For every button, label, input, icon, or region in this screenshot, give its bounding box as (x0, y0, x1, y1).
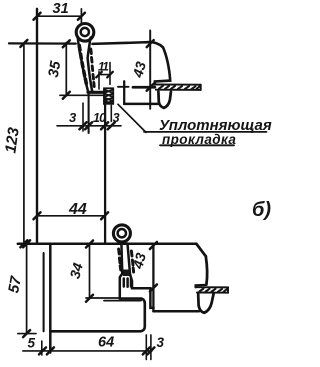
ticks of bottom dims (39, 347, 154, 354)
ticks of 3-10-3 (80, 122, 115, 129)
tick left of 44 (34, 212, 41, 219)
tick top of 43 (147, 40, 154, 47)
slot top edge (bottom detail) (196, 285, 207, 287)
dimension line 123 (23, 43, 25, 243)
ext line x150.9 (150, 335, 152, 360)
extension line y95 (bottom of dim 35) (60, 94, 105, 96)
svg-text:3: 3 (113, 111, 120, 125)
step profile left (bottom detail) (120, 274, 122, 298)
svg-text:прокладка: прокладка (162, 132, 236, 147)
gasket bar (top detail) (155, 85, 200, 90)
ext line x111 (110, 105, 112, 121)
ext line left of 11 (98, 72, 100, 89)
tick top of 34 (86, 241, 93, 248)
gasket bar (bottom detail) (197, 287, 228, 293)
tick bottom of 57 (23, 330, 30, 337)
svg-text:10: 10 (93, 111, 106, 125)
ext line right of 11 (109, 63, 111, 85)
right panel bottom face (bottom detail) (153, 310, 199, 313)
tick top of 57 (23, 240, 30, 247)
bottom dimension line 5-64-3 (23, 350, 152, 352)
tick top of 35 (63, 40, 70, 47)
top surface line right of ring (92, 42, 145, 44)
svg-text:3: 3 (69, 110, 77, 125)
dimension line 34 (89, 244, 91, 298)
dimension line 57 (26, 244, 28, 334)
dimension 31 line (37, 15, 81, 17)
svg-text:3: 3 (157, 335, 165, 350)
tick bottom of 123 (20, 240, 27, 247)
lifting ring outer (top detail) (76, 24, 94, 42)
stem sealant dashes (bottom detail) (119, 249, 134, 272)
tick top of 43 (bottom) (150, 242, 157, 249)
right panel top corner slant (bottom detail) (196, 244, 205, 256)
lifting ring hole (top detail) (81, 28, 89, 36)
svg-text:б): б) (252, 199, 271, 221)
tick bottom of 43 (bottom) (150, 285, 157, 292)
stem foot bar (88, 91, 105, 94)
joint channel left face lower (88, 92, 90, 133)
lifting ring outer (bottom detail) (113, 225, 130, 242)
ext line x146.3 (145, 335, 147, 360)
left edge of bottom-left panel (49, 244, 52, 353)
right panel bottom face (top detail) (124, 103, 158, 106)
sealing gasket cross-hatched (vertical joint, top detail) (104, 88, 113, 104)
small tick across inner face (118, 86, 129, 88)
tick top of 123 (20, 40, 27, 47)
svg-text:31: 31 (53, 1, 69, 17)
tick right of 31 (78, 13, 85, 20)
tongue of left panel (bottom detail) (50, 299, 145, 332)
svg-text:5: 5 (28, 336, 36, 351)
tick right of 11 (107, 72, 113, 78)
shared top surface line (bottom detail) (18, 243, 197, 246)
svg-text:44: 44 (68, 201, 87, 218)
underline of label line2 (160, 144, 234, 146)
tick left of 31 (34, 13, 41, 20)
stem right edge (top detail) (88, 38, 93, 93)
right panel outline top+outer face (top detail) (145, 42, 170, 84)
tick left of 11 (96, 72, 102, 78)
dimension line 43 (top detail) (149, 31, 151, 109)
svg-text:123: 123 (2, 126, 22, 154)
stem sealant dashes right (91, 49, 94, 87)
tick bottom of 34 (86, 295, 93, 302)
tick right of 44 (101, 212, 108, 219)
lifting ring hole (bottom detail) (118, 229, 126, 237)
long vertical joint line (104, 100, 106, 244)
right panel inner face (top detail) (123, 81, 125, 104)
ext line x41.8 (41, 341, 43, 355)
gasket bar hatch dashes (bottom detail) (200, 289, 228, 292)
step profile right (bottom detail) (130, 274, 154, 308)
svg-text:64: 64 (98, 335, 114, 351)
ext line right of 31 (80, 9, 82, 23)
stem sealant dashes left (79, 46, 86, 84)
top surface line left of ring (9, 42, 76, 44)
gasket bar inner dark segment left of slot (133, 86, 155, 89)
ledge extension line (dim 34 bottom) (86, 297, 120, 299)
gasket bar hatch dashes (159, 86, 200, 89)
inner layer line of bottom-left panel (43, 253, 45, 331)
ext line x83 (82, 103, 84, 131)
tick bottom of 35 (63, 92, 70, 99)
drip nose hook (bottom detail) (198, 293, 214, 313)
ext line bottom of 57 (18, 333, 36, 335)
stem left edge (bottom detail) (120, 244, 123, 275)
dimension 11 line (99, 74, 110, 76)
dimension line 35 (65, 42, 67, 95)
right panel left face (bottom detail, also dim 43 line) (152, 244, 154, 311)
stem left edge (top detail) (78, 37, 89, 92)
drip nose hook (top detail) (158, 92, 171, 108)
tick bottom of 43 (147, 84, 154, 91)
stem right edge (bottom detail) (128, 244, 131, 275)
stem foot dark blob (bottom detail) (123, 270, 130, 277)
rebate hatch dashes (bottom detail) (124, 279, 131, 287)
dimension line 3-10-3 (57, 125, 121, 127)
right panel outer face (bottom detail) (206, 256, 207, 284)
underline of label line1 (144, 131, 267, 133)
leader line to label (118, 104, 146, 132)
left panel left edge (top detail) (36, 9, 38, 244)
dimension line 44 (37, 215, 105, 217)
